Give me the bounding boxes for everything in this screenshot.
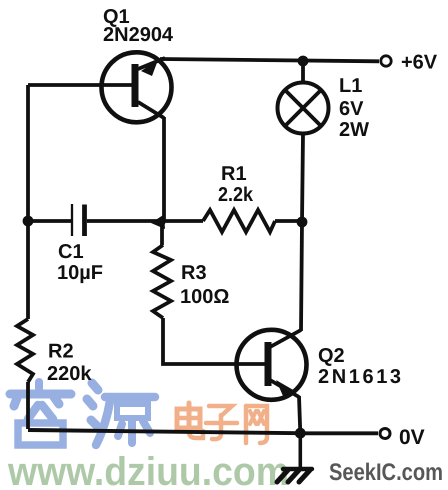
wire: right rail from R1 junction down to Q2 collector xyxy=(301,222,302,331)
wire: R3 bottom lead down and right to Q2 base xyxy=(163,318,265,364)
transistor Q1 emitter arrowhead (PNP, points toward base) xyxy=(141,60,158,76)
svg-text:100Ω: 100Ω xyxy=(180,286,229,308)
wire: bottom rail xyxy=(28,430,300,433)
wire: Q1 collector drop to mid wire xyxy=(162,117,166,221)
svg-text:L1: L1 xyxy=(339,75,362,97)
transistor Q1 base bar xyxy=(132,64,139,107)
svg-text:SeekIC.com: SeekIC.com xyxy=(329,459,443,486)
terminal 0V circle xyxy=(380,429,390,439)
transistor Q2 collector line xyxy=(270,330,301,347)
transistor Q1 collector line xyxy=(138,102,164,118)
junction dot at mid wire / Q1 collector / R3 xyxy=(151,215,165,230)
junction dot at left rail / C1 wire xyxy=(23,216,34,227)
svg-text:Q2: Q2 xyxy=(318,345,345,367)
svg-text:6V: 6V xyxy=(339,98,364,120)
svg-text:www.dziuu.com: www.dziuu.com xyxy=(7,450,289,490)
svg-text:220k: 220k xyxy=(47,363,92,385)
resistor R3 zigzag xyxy=(153,245,171,318)
watermark character 子 (salmon) xyxy=(206,406,237,439)
wire: left rail vertical (base wire corner down to C1 junction) xyxy=(26,85,30,221)
svg-text:2.2k: 2.2k xyxy=(218,184,254,206)
wire: bottom rail to 0V terminal xyxy=(300,431,378,435)
svg-text:2N2904: 2N2904 xyxy=(103,24,174,46)
transistor Q2 emitter arrowhead (NPN, points out) xyxy=(276,380,295,396)
junction dot at bottom rail / Q2 emitter / ground xyxy=(295,428,306,439)
wire: left rail below R2 to bottom corner xyxy=(26,382,30,429)
lamp L1 circle xyxy=(278,83,329,134)
wire: lamp branch from top rail xyxy=(301,61,305,82)
wire: C1 horizontal wire (left rail to C1 left plate) xyxy=(28,219,71,223)
wire: R3 top lead xyxy=(160,221,164,245)
watermark character 容 (blue) xyxy=(10,382,71,445)
wire: Q1 base lead xyxy=(28,83,133,87)
svg-text:C1: C1 xyxy=(58,241,84,263)
svg-text:R2: R2 xyxy=(48,341,74,363)
wire: ground drop xyxy=(298,432,302,467)
svg-text:2W: 2W xyxy=(339,119,369,141)
svg-text:10µF: 10µF xyxy=(57,262,103,284)
terminal +6V circle xyxy=(381,56,391,66)
transistor Q2 base bar xyxy=(265,342,272,386)
svg-text:2N1613: 2N1613 xyxy=(318,366,404,388)
transistor Q2 circle xyxy=(237,330,307,400)
wire: lamp bottom to R1 junction xyxy=(302,134,303,222)
junction dot at top rail / lamp xyxy=(298,56,309,67)
resistor R1 zigzag xyxy=(203,210,275,232)
transistor Q1 emitter line xyxy=(138,58,165,69)
wire: C1 right plate to R1 left end xyxy=(87,219,203,223)
watermark character 电 (salmon) xyxy=(177,403,203,438)
svg-text:+6V: +6V xyxy=(401,52,438,74)
svg-text:0V: 0V xyxy=(399,426,425,449)
transistor Q1 circle xyxy=(102,52,172,122)
watermark character 网 (salmon) xyxy=(246,406,267,443)
wire: R1 right end to right rail xyxy=(275,219,302,223)
svg-text:R1: R1 xyxy=(221,163,247,185)
capacitor C1 right plate xyxy=(82,205,87,237)
junction dot at right rail / R1 xyxy=(297,217,308,228)
transistor Q2 emitter line xyxy=(270,380,299,397)
svg-text:R3: R3 xyxy=(181,262,207,284)
wire: left rail below C1 junction to R2 top xyxy=(26,221,30,319)
capacitor C1 left plate xyxy=(71,204,73,236)
wire: Q2 emitter to bottom junction xyxy=(299,396,300,433)
wire: top rail from Q1 emitter to +6V terminal xyxy=(160,59,379,61)
lamp L1 X diagonals xyxy=(285,90,321,126)
ground symbol xyxy=(277,469,312,482)
watermark character 源 (blue) xyxy=(87,383,155,445)
resistor R2 zigzag xyxy=(17,319,33,382)
